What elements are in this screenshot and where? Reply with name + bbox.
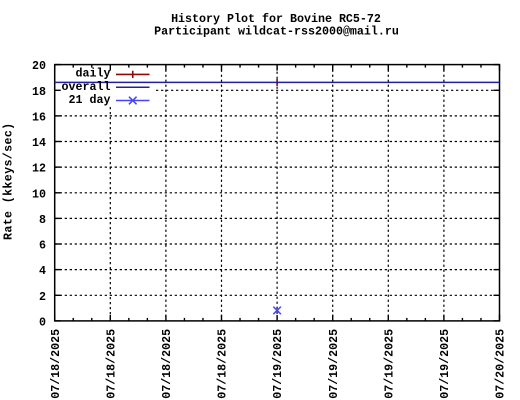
svg-text:2: 2 <box>39 290 46 304</box>
svg-text:8: 8 <box>39 213 46 227</box>
svg-text:07/19/2025: 07/19/2025 <box>327 329 341 399</box>
svg-text:07/18/2025: 07/18/2025 <box>160 329 174 399</box>
svg-text:Rate (kkeys/sec): Rate (kkeys/sec) <box>2 122 16 240</box>
svg-text:History Plot for Bovine RC5-72: History Plot for Bovine RC5-72 <box>171 12 381 26</box>
svg-text:07/20/2025: 07/20/2025 <box>494 329 508 399</box>
svg-text:16: 16 <box>32 110 46 124</box>
svg-text:07/18/2025: 07/18/2025 <box>49 329 63 399</box>
svg-text:overall: overall <box>62 80 111 94</box>
svg-text:6: 6 <box>39 239 46 253</box>
svg-text:14: 14 <box>32 136 46 150</box>
svg-text:21 day: 21 day <box>69 93 111 107</box>
svg-text:07/18/2025: 07/18/2025 <box>104 329 118 399</box>
svg-text:4: 4 <box>39 264 46 278</box>
svg-text:07/19/2025: 07/19/2025 <box>382 329 396 399</box>
svg-text:0: 0 <box>39 315 46 329</box>
svg-text:10: 10 <box>32 187 46 201</box>
svg-text:12: 12 <box>32 162 46 176</box>
svg-text:07/19/2025: 07/19/2025 <box>271 329 285 399</box>
svg-text:07/18/2025: 07/18/2025 <box>216 329 230 399</box>
svg-text:20: 20 <box>32 59 46 73</box>
svg-text:daily: daily <box>76 67 111 81</box>
svg-text:Participant wildcat-rss2000@ma: Participant wildcat-rss2000@mail.ru <box>154 25 399 39</box>
svg-text:07/19/2025: 07/19/2025 <box>438 329 452 399</box>
svg-text:18: 18 <box>32 85 46 99</box>
